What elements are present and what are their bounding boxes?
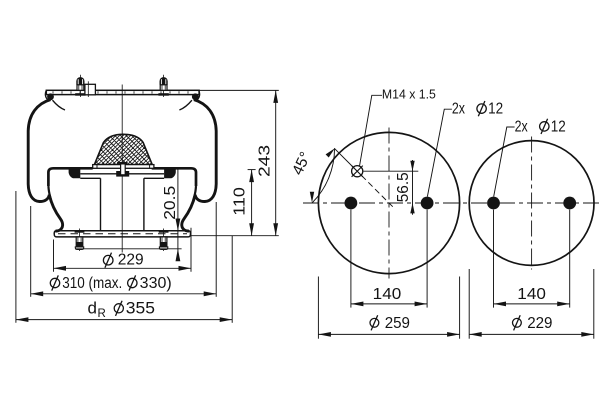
extension lines diameter 355 — [15, 191, 17, 323]
top reference line 243 — [194, 89, 279, 91]
svg-text:140: 140 — [373, 286, 402, 303]
piston skirt corner right — [152, 168, 196, 186]
bellows shoulder curves under plate — [53, 100, 192, 110]
svg-text:110: 110 — [231, 187, 248, 216]
extension lines diameter 259 — [317, 277, 319, 339]
svg-text:12: 12 — [488, 101, 503, 118]
bolt hole circle2 left — [487, 197, 500, 210]
dimension diameter 229 plan line — [469, 333, 594, 335]
piston center bolt — [121, 164, 126, 175]
left bead — [47, 93, 54, 100]
dimension 56.5 line — [412, 160, 414, 215]
dimension 20.5 arrows — [176, 219, 181, 232]
bolt hole circle1 right — [421, 197, 434, 210]
piston body — [80, 178, 164, 230]
bellows outer wall right — [182, 100, 216, 231]
dimension 110 tick — [248, 169, 256, 171]
svg-text:2x: 2x — [515, 118, 528, 135]
top mounting bolt right — [163, 75, 165, 97]
piston skirt corner left — [48, 168, 92, 186]
dimension diameter 229 plan text — [513, 318, 522, 327]
svg-text:R: R — [98, 308, 106, 320]
vertical center line circle 2 — [531, 137, 533, 270]
svg-text:243: 243 — [257, 145, 274, 177]
dimension 140 circle2 line — [494, 303, 570, 305]
hole extension lines circle2 — [493, 210, 495, 308]
dimension diameter 259 text — [370, 318, 379, 327]
plan view circle diameter 259 — [318, 132, 459, 273]
dimension 56.5 reference line — [364, 170, 419, 172]
piston top flange — [80, 173, 164, 175]
leader 2x diameter 12 circle2 — [494, 127, 515, 197]
svg-text:310 (max.: 310 (max. — [62, 275, 122, 292]
45 degree dashed axis — [362, 176, 395, 209]
bolt hole circle1 left — [345, 197, 358, 210]
dimension 110 line — [251, 170, 253, 236]
dimension 20.5 line — [177, 169, 179, 260]
extension lines diameter 310 — [30, 206, 32, 297]
bottom plate — [54, 231, 190, 237]
svg-text:12: 12 — [551, 118, 566, 135]
rubber fold wedge right — [164, 169, 176, 178]
svg-text:330): 330) — [140, 275, 172, 292]
svg-text:56.5: 56.5 — [395, 172, 412, 202]
right bead — [192, 93, 199, 100]
bottom mounting stud left — [79, 229, 81, 252]
extension lines diameter 229 plan — [468, 269, 470, 339]
dimension 140 circle1 line — [351, 303, 427, 305]
svg-text:M14 x 1.5: M14 x 1.5 — [382, 86, 436, 101]
svg-text:20.5: 20.5 — [162, 186, 179, 220]
top mounting bolt left — [79, 75, 81, 97]
svg-text:2x: 2x — [452, 101, 465, 118]
45 degree dimension arc — [312, 149, 335, 203]
horizontal center line plan view — [303, 202, 600, 204]
stud bottom datum line — [75, 248, 181, 250]
piston center bolt pocket — [116, 171, 129, 177]
svg-text:229: 229 — [118, 251, 144, 268]
dimension diameter 259 line — [318, 333, 459, 335]
bottom mounting stud right — [163, 229, 165, 252]
svg-text:140: 140 — [517, 286, 546, 303]
svg-text:45°: 45° — [289, 149, 314, 177]
bellows outer wall left — [28, 100, 62, 231]
dimension dR diameter 355 line — [16, 319, 232, 321]
leader 2x diameter 12 circle1 — [427, 109, 452, 196]
rubber fold wedge left — [69, 169, 81, 178]
bottom reference line — [191, 235, 279, 237]
M14 air fitting symbol — [352, 166, 363, 177]
bolt hole circle2 right — [563, 197, 576, 210]
dimension diameter 310 max 330 text — [50, 278, 59, 287]
dimension diameter 229 text left view — [103, 255, 113, 265]
top bead plate — [46, 90, 199, 94]
svg-text:d: d — [88, 299, 97, 318]
air fitting block — [85, 84, 96, 95]
hole extension lines circle1 — [350, 210, 352, 308]
dimension diameter 229 line left view — [54, 267, 192, 269]
vertical center line of side view — [121, 85, 123, 253]
bumper base plate — [93, 165, 154, 169]
svg-text:259: 259 — [385, 315, 410, 332]
piston center bolt head shoulder — [117, 162, 128, 164]
svg-text:355: 355 — [126, 300, 155, 318]
leader M14 x 1.5 — [360, 95, 383, 166]
vertical center line circle 1 — [388, 128, 390, 279]
svg-text:229: 229 — [527, 315, 552, 332]
45 degree solid ray — [334, 148, 353, 167]
extension lines diameter 229 left view — [53, 240, 55, 272]
plan view circle diameter 229 — [469, 141, 594, 266]
dimension diameter 310 line — [31, 293, 217, 295]
dimension 243 line — [275, 90, 277, 235]
